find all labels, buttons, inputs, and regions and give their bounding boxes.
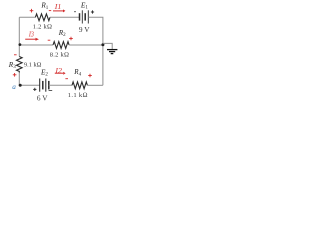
wire: R4 to bottom-right corner [87, 84, 103, 86]
E2 plus sign [33, 88, 36, 91]
R4 plus (red) [88, 74, 92, 78]
E1 plus sign [91, 10, 94, 13]
wire top: left corner to R1 [19, 16, 35, 18]
svg-text:9 V: 9 V [79, 25, 90, 34]
ground stub wire [103, 43, 112, 49]
R1 minus (red) [49, 10, 51, 12]
R2 plus (red) [69, 37, 73, 41]
R4 minus (red) [65, 78, 68, 80]
node a dot [19, 84, 22, 87]
wire: R3 to bottom-left corner [19, 73, 39, 86]
R3 minus (red) [14, 54, 17, 56]
svg-text:9.1 kΩ: 9.1 kΩ [24, 61, 42, 68]
svg-text:I1: I1 [54, 2, 62, 11]
background [0, 0, 120, 103]
E1 minus sign [74, 11, 76, 13]
resistor R3 [17, 57, 23, 73]
resistor R4 [72, 82, 87, 89]
svg-text:8.2 kΩ: 8.2 kΩ [50, 52, 70, 59]
R3 plus (red) [13, 73, 17, 77]
svg-text:a: a [12, 83, 16, 91]
junction dot right [101, 43, 104, 46]
resistor R1 [35, 14, 50, 21]
svg-text:I3: I3 [28, 30, 34, 39]
wire: E2 to R4 [49, 84, 72, 86]
resistor R2 [53, 42, 69, 49]
ground symbol [107, 50, 117, 54]
wire: E1 to top-right corner, down right side [88, 17, 103, 85]
E2 minus sign [49, 90, 53, 92]
junction dot left [19, 43, 22, 46]
middle wire: junction to R2 [19, 44, 53, 46]
wire left side: top corner down to middle junction [18, 17, 20, 56]
battery E2 [40, 79, 49, 92]
current I1 arrow [53, 9, 65, 12]
wire: R1 to E1 [50, 16, 80, 18]
current I3 arrow [25, 38, 39, 41]
svg-text:1.2 kΩ: 1.2 kΩ [33, 24, 53, 31]
svg-text:1.1 kΩ: 1.1 kΩ [68, 92, 88, 99]
middle wire: R2 to right wire [69, 44, 103, 46]
current I2 arrow [55, 72, 66, 75]
R2 minus (red) [48, 39, 51, 41]
svg-text:6 V: 6 V [37, 94, 48, 103]
R1 plus (red) [30, 9, 34, 13]
battery E1 [80, 10, 89, 23]
